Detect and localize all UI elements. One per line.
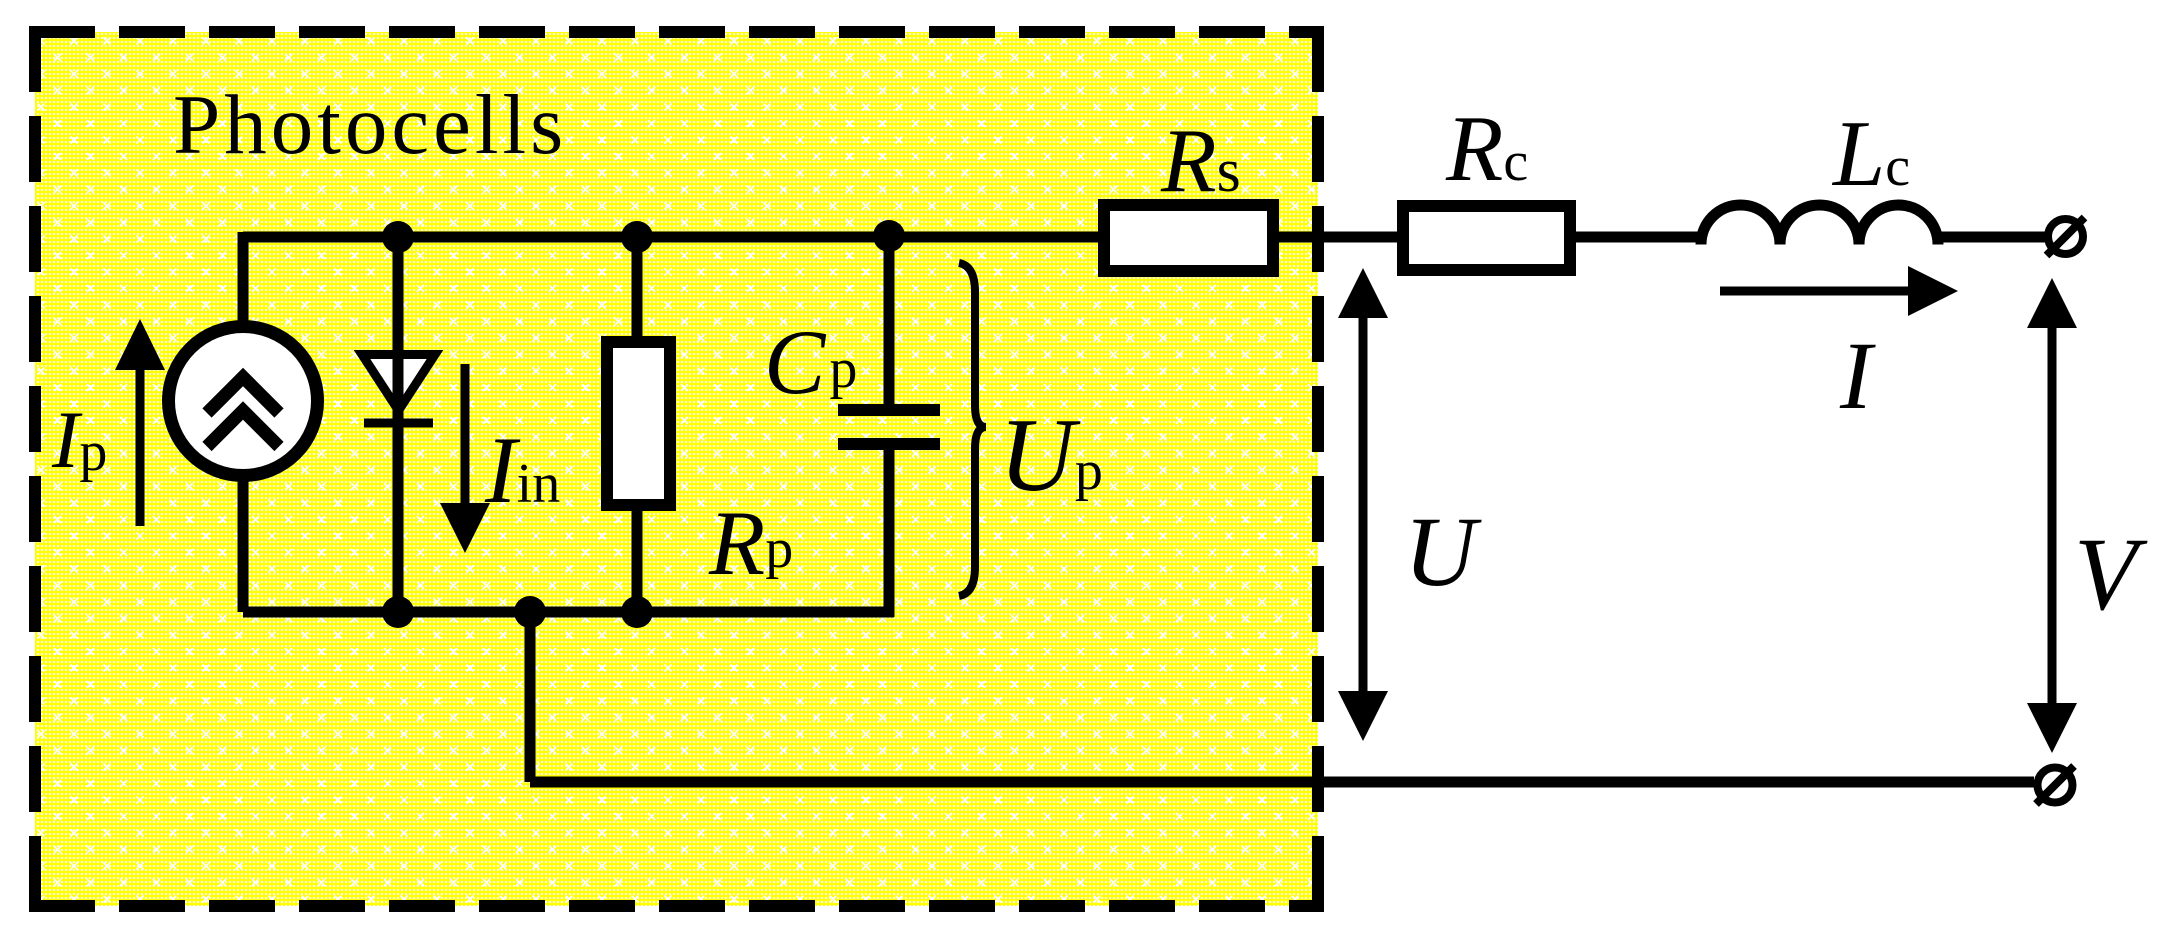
wire output bottom bbox=[530, 612, 2034, 782]
capacitor Cp bbox=[838, 404, 940, 450]
junction dot bottom output bbox=[514, 596, 546, 628]
wire Cp bottom lead bbox=[884, 444, 895, 617]
diode D bbox=[362, 340, 435, 612]
junction dot top Cp bbox=[873, 220, 905, 252]
brace Up bbox=[959, 263, 986, 596]
voltage arrow V (double-headed) bbox=[2027, 278, 2077, 753]
wire bottom inner bus bbox=[243, 607, 894, 618]
svg-text:Photocells: Photocells bbox=[173, 78, 567, 172]
terminal top bbox=[2047, 218, 2085, 256]
wire top bus right of inductor bbox=[1939, 232, 2046, 243]
resistor Rs bbox=[1104, 205, 1273, 271]
wire current source bottom lead bbox=[238, 478, 249, 612]
junction dot bottom Rp bbox=[621, 596, 653, 628]
resistor Rp bbox=[607, 342, 670, 505]
wire current source top lead bbox=[238, 232, 249, 325]
wire Cp top lead bbox=[884, 237, 895, 410]
wire diode branch bbox=[393, 237, 404, 612]
junction dot top diode bbox=[382, 221, 414, 253]
terminal bottom bbox=[2036, 766, 2074, 804]
photocell module box (dashed, yellow hatched fill) bbox=[29, 26, 1324, 912]
current arrow I bbox=[1720, 266, 1958, 316]
current source Ip bbox=[169, 327, 318, 476]
svg-text:V: V bbox=[2074, 517, 2148, 632]
wire top bus bbox=[243, 232, 1701, 243]
voltage arrow U (double-headed) bbox=[1338, 268, 1388, 741]
junction dot top Rp bbox=[621, 221, 653, 253]
wire Rp top lead bbox=[632, 237, 643, 345]
junction dot bottom diode bbox=[382, 596, 414, 628]
inductor Lc bbox=[1701, 205, 1938, 244]
wire Rp bottom lead bbox=[632, 505, 643, 612]
svg-text:U: U bbox=[1404, 496, 1482, 607]
current arrow Ip bbox=[115, 319, 165, 526]
current arrow Iin bbox=[440, 364, 490, 553]
resistor Rc bbox=[1403, 206, 1570, 270]
svg-text:I: I bbox=[1839, 322, 1876, 429]
